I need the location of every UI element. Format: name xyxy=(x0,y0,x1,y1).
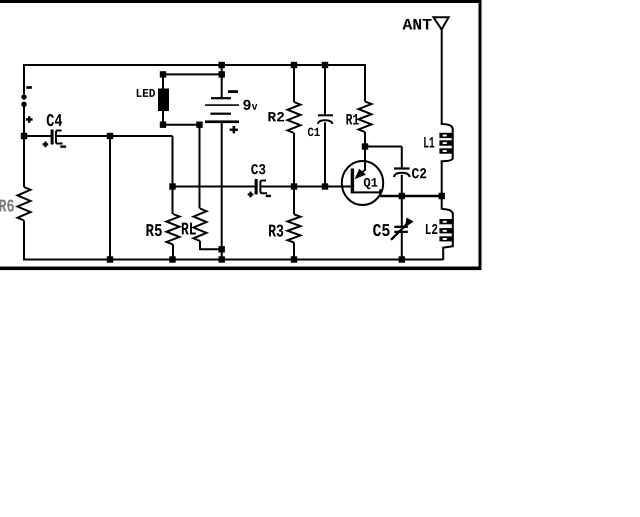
inductor L1 bottom hook xyxy=(442,158,453,163)
wire R3 bottom lead xyxy=(293,243,295,260)
wire R2 top lead xyxy=(293,65,295,102)
battery plate 2 xyxy=(205,104,239,106)
wire Q1 collector lead xyxy=(364,147,366,172)
resistor R1 xyxy=(359,102,372,133)
border right bar xyxy=(479,0,482,270)
node junction mic/C4 xyxy=(21,133,27,139)
capacitor C4 plus plate xyxy=(51,130,54,145)
label ANT xyxy=(403,19,432,30)
label C3 plus xyxy=(248,192,254,198)
inductor L2 bottom hook xyxy=(443,245,453,261)
wire rail corner to R1 xyxy=(364,64,366,102)
wire base rail left xyxy=(173,186,255,188)
border bottom bar xyxy=(0,267,481,271)
microphone MIC terminal dots xyxy=(21,94,26,107)
label C4 xyxy=(47,114,62,126)
capacitor C5 top lead xyxy=(401,196,403,226)
transistor Q1 emitter path xyxy=(353,189,381,196)
label RL xyxy=(182,223,196,235)
transistor Q1 circle xyxy=(342,161,383,205)
label battery minus xyxy=(228,90,238,93)
wire R1 junction to C2 xyxy=(365,146,402,148)
node junction R5 top xyxy=(169,183,175,189)
capacitor C2 top lead xyxy=(401,147,403,169)
wire C4 to junction xyxy=(57,135,173,137)
label battery plus xyxy=(230,126,238,133)
transistor Q1 base bar xyxy=(351,169,354,194)
capacitor C1 top plate xyxy=(318,114,333,116)
capacitor C2 curved plate xyxy=(394,173,410,177)
wire battery top lead xyxy=(221,65,223,97)
node junction LED top xyxy=(160,71,166,77)
label C2 xyxy=(412,168,426,178)
wire R2 bottom lead xyxy=(293,133,295,187)
wire R3 top lead xyxy=(293,187,295,215)
inductor L1 turn 2 xyxy=(439,140,453,145)
wire RL top lead xyxy=(199,125,201,209)
label C4 plus xyxy=(43,142,49,148)
wire LED bottom lead xyxy=(162,111,164,125)
transistor Q1 emitter arrow xyxy=(355,169,366,179)
resistor R6 xyxy=(18,187,31,221)
node junction battery at rail xyxy=(219,62,225,68)
wire R5 top lead xyxy=(172,187,174,215)
node junction battery bottom rail xyxy=(219,256,225,262)
node junction RL top xyxy=(196,122,202,128)
label R6 xyxy=(0,199,14,211)
node junction RL/battery bottom xyxy=(219,246,225,252)
label C3 xyxy=(251,164,265,174)
wire C1 top lead xyxy=(324,65,326,114)
label L2 xyxy=(426,224,437,234)
wire base rail right xyxy=(262,186,352,188)
capacitor C1 curved plate xyxy=(318,120,333,124)
inductor L2 right bar xyxy=(452,213,454,245)
wire mic upper lead xyxy=(23,64,25,94)
capacitor C3 plus plate xyxy=(255,179,258,194)
battery plate 3 xyxy=(211,113,232,115)
label mic minus xyxy=(26,86,32,89)
wire LED bottom to RL xyxy=(163,124,200,126)
label battery 9v xyxy=(243,100,257,110)
node junction R3 bottom xyxy=(291,256,297,262)
node junction x110 bottom xyxy=(107,256,113,262)
node junction LED bottom xyxy=(160,122,166,128)
node junction R1 bottom xyxy=(362,143,368,149)
label L1 xyxy=(424,137,434,148)
battery plate 1 xyxy=(211,97,231,99)
inductor L1 right bar xyxy=(452,128,454,159)
inductor L1 turn 1 xyxy=(439,133,453,138)
inductor L2 turn 1 xyxy=(439,219,453,224)
wire antenna stem xyxy=(441,28,443,124)
wire top rail xyxy=(24,64,365,66)
node junction C1 top xyxy=(322,62,328,68)
capacitor C2 bottom lead xyxy=(401,175,403,196)
wire R1 bottom lead xyxy=(364,132,366,147)
antenna symbol xyxy=(434,17,449,29)
inductor L2 top hook xyxy=(442,209,453,214)
wire tap to L2 xyxy=(441,196,443,210)
wire mic to C4 xyxy=(24,135,51,137)
label C1 xyxy=(308,128,320,136)
capacitor C5 plate 1 xyxy=(394,226,408,228)
wire left column to R6 xyxy=(23,136,25,187)
node junction R2 top xyxy=(291,62,297,68)
capacitor C5 plate 2 xyxy=(394,231,408,233)
label mic plus xyxy=(26,116,33,123)
label C3 minus xyxy=(266,195,271,197)
node junction C5 top xyxy=(399,193,405,199)
capacitor C2 top plate xyxy=(394,167,410,169)
battery plate 4 xyxy=(205,120,239,123)
wire drop to base rail xyxy=(172,136,174,187)
label R3 xyxy=(269,224,283,236)
wire R5 bottom lead xyxy=(172,245,174,260)
inductor L2 turn 3 xyxy=(439,236,453,241)
label LED xyxy=(137,89,155,97)
wire emitter rail xyxy=(380,195,442,198)
node junction battery top lead xyxy=(219,71,225,77)
wire LED top to battery xyxy=(163,73,222,75)
node junction C1 bottom xyxy=(322,183,328,189)
wire battery bottom lead xyxy=(221,123,223,260)
capacitor C4 curved plate xyxy=(56,131,63,144)
LED body xyxy=(158,89,169,112)
wire C1 bottom lead xyxy=(324,122,326,186)
label R1 xyxy=(346,114,358,125)
capacitor C3 curved plate xyxy=(260,181,267,194)
inductor L2 turn 2 xyxy=(439,228,453,233)
node junction R5 bottom xyxy=(169,256,175,262)
wire LED top lead xyxy=(162,74,164,89)
inductor L1 top hook xyxy=(442,123,453,129)
wire mic lower lead xyxy=(23,107,25,136)
resistor R3 xyxy=(288,214,301,242)
capacitor C5 trimmer arrow xyxy=(391,218,414,240)
resistor R2 xyxy=(288,102,301,133)
label R5 xyxy=(146,224,161,236)
inductor L1 turn 3 xyxy=(439,148,453,153)
node junction C5 bottom xyxy=(399,256,405,262)
resistor R5 xyxy=(167,214,180,245)
capacitor C5 bottom lead xyxy=(401,233,403,260)
label C5 xyxy=(373,224,389,236)
wire R6 to bottom rail xyxy=(23,221,25,261)
label C4 minus xyxy=(60,145,66,147)
label Q1 xyxy=(364,178,378,189)
node junction x110 xyxy=(107,133,113,139)
resistor RL xyxy=(194,209,207,242)
label R2 xyxy=(268,112,284,121)
border top bar xyxy=(0,0,481,3)
node junction R3 top xyxy=(291,183,297,189)
wire bottom rail xyxy=(23,259,443,261)
wire L1 to tap xyxy=(441,162,443,197)
node junction L tap xyxy=(439,193,445,199)
wire vertical drop x110 xyxy=(109,136,111,260)
wire RL bottom hook xyxy=(200,241,222,249)
